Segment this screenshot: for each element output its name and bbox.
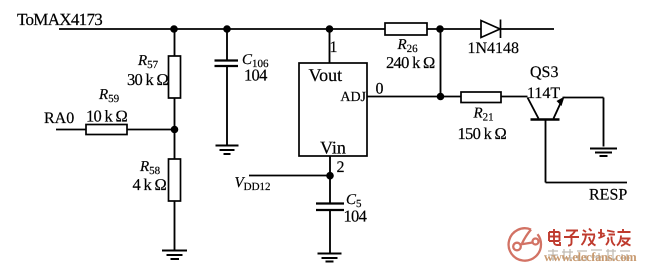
svg-text:0: 0 [376,81,384,98]
svg-text:1: 1 [330,39,338,56]
svg-text:30 k Ω: 30 k Ω [127,70,169,89]
svg-text:www.elecfans.com: www.elecfans.com [544,250,637,264]
svg-text:RESP: RESP [589,187,627,204]
svg-text:2: 2 [337,159,345,176]
svg-text:RA0: RA0 [44,110,74,127]
svg-text:10 k Ω: 10 k Ω [86,107,128,126]
svg-text:114T: 114T [527,85,560,102]
svg-text:4 k Ω: 4 k Ω [133,175,167,194]
svg-text:ADJ: ADJ [340,90,366,105]
svg-text:Vin: Vin [320,138,346,158]
svg-text:240 k Ω: 240 k Ω [386,53,435,72]
svg-text:Vout: Vout [309,65,343,85]
svg-text:ToMAX4173: ToMAX4173 [17,10,102,29]
svg-text:150 k Ω: 150 k Ω [458,124,507,143]
svg-text:104: 104 [344,207,367,226]
svg-text:1N4148: 1N4148 [468,40,520,57]
svg-text:QS3: QS3 [530,64,558,81]
svg-text:104: 104 [244,66,267,85]
